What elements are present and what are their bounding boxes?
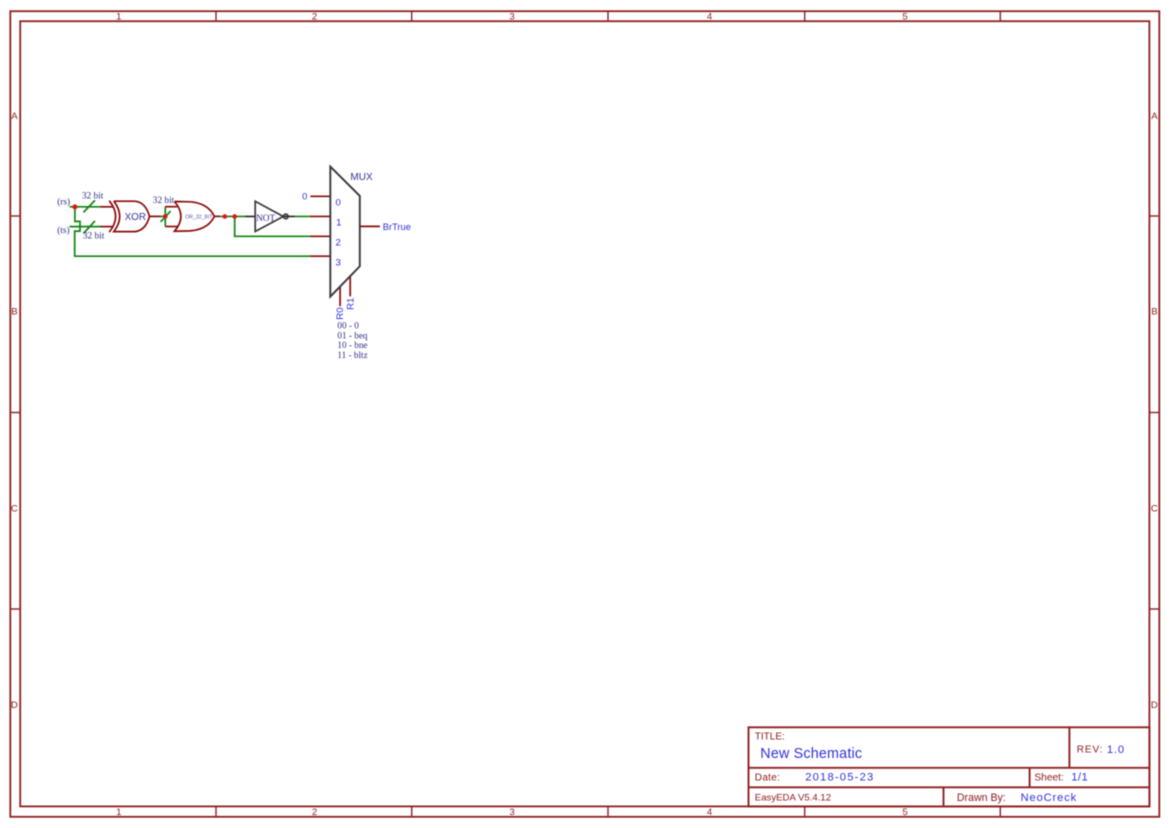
CIRCUIT [57,167,411,360]
svg-text:11 - bltz: 11 - bltz [337,350,367,360]
svg-text:5: 5 [902,807,907,818]
svg-text:C: C [1151,504,1158,515]
svg-text:0: 0 [336,198,341,209]
svg-text:B: B [1151,307,1157,318]
svg-text:Drawn By:: Drawn By: [957,792,1006,804]
svg-text:MUX: MUX [350,172,373,183]
svg-text:NeoCreck: NeoCreck [1021,792,1078,804]
svg-text:32 bit: 32 bit [153,196,175,206]
svg-text:2018-05-23: 2018-05-23 [805,772,874,784]
svg-text:C: C [11,504,18,515]
bus slash 32 bit on (ts) wire [83,221,95,234]
svg-text:01 - beq: 01 - beq [337,330,368,340]
NOT gate output pin [283,215,294,217]
OR gate OR_32_BIT [175,202,215,232]
wire net (rs) to XOR top input [70,206,101,208]
MUX output pin [360,225,380,227]
TITLE BLOCK [749,727,1150,806]
svg-text:1: 1 [336,218,341,229]
svg-text:A: A [1151,111,1158,122]
MUX input pin 0 [310,195,330,197]
svg-text:NOT: NOT [256,214,275,224]
svg-text:XOR: XOR [125,212,146,223]
OR gate output pin [214,215,219,217]
bus slash 32 bit on (rs) wire [83,200,95,212]
svg-text:32 bit: 32 bit [83,231,105,241]
svg-text:OR_32_BIT: OR_32_BIT [185,215,213,221]
annotation select codes [337,321,368,360]
svg-text:REV:: REV: [1077,745,1104,756]
svg-text:Date:: Date: [755,772,780,783]
MUX input pin 1 [310,215,330,217]
OR gate input pins [165,207,177,227]
wire XOR output node [160,207,165,227]
svg-text:(rs): (rs) [57,196,70,207]
svg-text:D: D [1151,700,1158,711]
MUX select pin R1 [349,276,351,296]
MUX input pin 3 [310,255,330,257]
svg-text:32 bit: 32 bit [82,192,104,202]
MUX input pin 2 [310,235,330,237]
svg-text:TITLE:: TITLE: [755,731,785,742]
svg-text:New Schematic: New Schematic [760,746,862,762]
svg-text:3: 3 [509,807,514,818]
junction dot at XOR output [163,214,168,219]
svg-text:BrTrue: BrTrue [383,222,411,232]
svg-text:B: B [11,307,17,318]
svg-text:3: 3 [336,258,341,269]
junction dot at (rs) [72,204,77,209]
junction dot A after OR gate [223,214,228,219]
wire from (rs) junction down with jog to MUX input 3 [75,207,311,256]
svg-text:R1: R1 [345,298,356,310]
MUX select pin R0 [339,287,341,307]
XOR gate output pin [150,215,161,217]
svg-text:Sheet:: Sheet: [1034,773,1063,784]
svg-text:3: 3 [509,12,514,23]
svg-text:1: 1 [116,12,121,23]
svg-text:2: 2 [312,807,317,818]
svg-text:A: A [11,111,18,122]
svg-text:4: 4 [707,12,713,23]
wire net (ts) to XOR bottom input [70,226,101,228]
NOT gate input pin [245,215,255,217]
svg-text:4: 4 [707,807,713,818]
svg-text:5: 5 [902,12,907,23]
svg-text:10 - bne: 10 - bne [337,340,367,350]
junction dot B after OR gate [232,214,237,219]
wire junction B down to MUX input 2 [235,216,311,236]
svg-text:00 - 0: 00 - 0 [337,321,359,331]
svg-text:EasyEDA V5.4.12: EasyEDA V5.4.12 [755,793,831,804]
svg-text:1: 1 [116,807,121,818]
svg-text:D: D [11,700,18,711]
MUX body [330,167,360,297]
NOT gate [255,201,288,231]
XOR gate input pins [101,207,114,227]
XOR gate [109,201,149,232]
svg-text:2: 2 [336,238,341,249]
svg-text:1/1: 1/1 [1071,772,1088,784]
wire NOT output to MUX input 1 [295,215,311,217]
svg-text:0: 0 [302,190,307,201]
wire OR output to NOT input [219,215,245,217]
svg-text:1.0: 1.0 [1107,744,1125,756]
svg-text:(ts): (ts) [57,225,69,236]
bus slash 32 bit at XOR output [161,211,171,222]
svg-text:2: 2 [312,12,317,23]
